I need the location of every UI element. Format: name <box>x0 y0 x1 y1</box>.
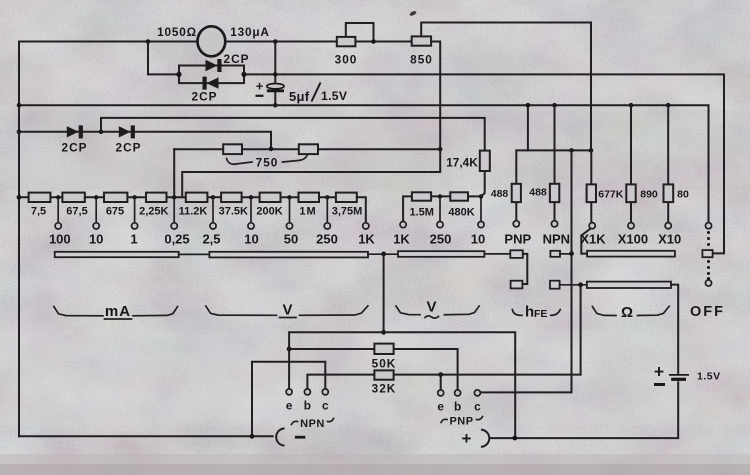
node: diode pair right <box>241 72 246 77</box>
node: rail y=105 capacitor junction <box>273 103 278 108</box>
bracket V ac <box>396 306 479 315</box>
svg-text:+: + <box>654 362 664 382</box>
svg-text:2CP: 2CP <box>62 141 88 155</box>
svg-text:7,5: 7,5 <box>31 206 46 218</box>
svg-text:FE: FE <box>534 308 547 320</box>
resistor 1M <box>299 193 320 202</box>
svg-text:V: V <box>426 299 436 316</box>
wire: V common drop x=383.6 <box>383 254 385 332</box>
resistor 1.5M <box>412 192 431 200</box>
squiggle right of 750 <box>283 155 308 163</box>
svg-text:677K: 677K <box>598 189 624 201</box>
contact pad NPN row1 <box>550 251 560 257</box>
node: 750-row right junction at x=440 <box>438 147 443 152</box>
node: junction between 2CP diodes <box>99 129 104 134</box>
OFF switch dotted link lower <box>707 260 710 263</box>
svg-text:2CP: 2CP <box>116 141 142 155</box>
node: chain junction 100 <box>56 195 60 199</box>
node: chain junction 10 <box>94 195 98 199</box>
wire: branch from 2CP junction up and right to 17.4K <box>101 118 485 151</box>
resistor 3.75M <box>336 193 357 202</box>
node: 750-row diode branch junction <box>269 147 274 152</box>
svg-text:b: b <box>454 400 461 414</box>
wire: diode pair loop frame <box>179 66 244 84</box>
wire: shunt drop x=148 <box>147 42 149 75</box>
resistor 67.5 <box>62 193 84 202</box>
wire: 32K line y=374.6 from NPN b across to ohm drop <box>307 375 580 389</box>
wire: bottom minus rail <box>19 435 273 437</box>
svg-text:1K: 1K <box>393 232 410 247</box>
node: chain junction 250 <box>325 195 329 199</box>
node: chain junction 2.5 <box>211 195 215 199</box>
svg-text:5μf: 5μf <box>289 89 310 104</box>
resistor 750-b <box>299 144 318 154</box>
node: hFE common junction at NPN pad <box>569 251 574 256</box>
OFF switch contact box <box>702 250 712 257</box>
terminal circle X1K <box>589 223 595 229</box>
label PNP with hooks <box>441 417 483 423</box>
selector bar ohm ranges X1K-X10 <box>587 251 675 257</box>
node: chain junction 50 <box>287 195 291 199</box>
wire: 677K lower lead <box>590 202 592 223</box>
svg-text:2,5: 2,5 <box>202 232 220 247</box>
bracket ohm <box>592 306 669 315</box>
wire: 80 riser x=668.2 <box>667 105 669 184</box>
svg-text:c: c <box>322 399 329 413</box>
contact pad NPN row2 <box>550 281 560 289</box>
diode 2CP lower of pair <box>203 77 219 90</box>
terminal circle 250 <box>324 223 330 229</box>
contact pad PNP row2 <box>511 281 523 289</box>
jack arc minus <box>276 429 283 446</box>
wire: rail y=105.2 full width, elbow down x=708.5 to OFF contact <box>19 105 709 222</box>
wire: 750-row y=149 from chain riser to 850 drop <box>174 148 440 150</box>
terminal circle OFF top <box>705 223 711 229</box>
terminal circle 10 <box>93 223 99 229</box>
node: segment junction x=591 <box>589 148 594 153</box>
node: rail tap x=631 <box>629 103 634 108</box>
tilde under V ac <box>425 316 439 318</box>
terminal circle NPN c <box>322 389 328 395</box>
node: V common tap on selector link <box>381 252 386 257</box>
resistor 50K <box>374 344 393 354</box>
wire: diode-pair left lead <box>148 73 179 75</box>
svg-text:890: 890 <box>640 189 658 201</box>
terminal circle X100 <box>628 223 634 229</box>
node: ohm bar left junction <box>578 282 583 287</box>
svg-text:1M: 1M <box>299 206 316 218</box>
node: chain1 left junction <box>17 195 22 200</box>
wire: 488-2 lower lead to NPN terminal <box>554 202 556 221</box>
terminal circle OFF bottom <box>705 280 711 286</box>
wire: 890 lower lead <box>630 202 632 223</box>
svg-text:10: 10 <box>471 232 485 247</box>
svg-text:+: + <box>462 429 472 448</box>
wire: hFE common vertical x=571.5 down to PNP c lead <box>480 150 571 392</box>
resistor 37.5K <box>221 193 242 202</box>
svg-text:1K: 1K <box>358 232 375 247</box>
svg-text:X100: X100 <box>618 232 648 247</box>
terminal circle 100 <box>55 223 61 229</box>
bracket hFE <box>512 310 560 316</box>
wire: 300 bypass loop <box>346 23 374 42</box>
svg-text:17,4K: 17,4K <box>446 156 478 170</box>
resistor 200K <box>260 193 281 202</box>
ink speck artifact <box>409 10 417 17</box>
terminal circles 1K 250 10 <box>400 222 406 228</box>
svg-text:b: b <box>304 399 311 413</box>
wire: tap to terminal 1 <box>134 197 136 223</box>
wire: left border vertical x=19 <box>18 42 20 437</box>
wire: tap to terminal 10 <box>95 197 97 223</box>
node: top rail capacitor tap <box>273 39 278 44</box>
resistor 850 <box>412 36 431 45</box>
resistor 480K <box>450 192 468 200</box>
meter M1 130uA <box>198 26 226 56</box>
svg-text:2CP: 2CP <box>192 90 218 104</box>
bracket mA <box>54 307 178 316</box>
wire: jog from x=440 junction down-left to chain junction <box>182 149 440 197</box>
resistor 7.5 <box>29 193 51 202</box>
wire: 488-1 lower lead to PNP terminal <box>515 202 517 221</box>
node: chain junction 10V <box>249 195 253 199</box>
contact pad PNP row1 <box>510 250 523 258</box>
node: junction on transistor top line <box>381 330 386 335</box>
node: rail y=131.7 left junction <box>17 129 22 134</box>
minus sign of left jack <box>295 436 305 439</box>
resistor 32K <box>374 370 393 379</box>
svg-text:NPN: NPN <box>300 418 325 430</box>
wire: chain2 1.5M/480K series <box>403 196 481 221</box>
diode 2CP D4 <box>119 125 135 138</box>
wire: capacitor lower lead to rail y=105 <box>274 90 276 105</box>
svg-text:V: V <box>282 302 292 319</box>
node: diode pair left <box>176 72 181 77</box>
svg-text:10: 10 <box>244 232 258 247</box>
resistor 675 <box>104 193 127 202</box>
node: PNP e junction on 32K line <box>438 372 443 377</box>
svg-text:1.5M: 1.5M <box>409 207 433 219</box>
svg-text:750: 750 <box>256 156 279 170</box>
node: NPN e junction on 50K line <box>287 347 292 352</box>
OFF switch dotted link upper <box>707 231 710 234</box>
wire: capacitor drop from top rail <box>274 42 276 86</box>
svg-text:mA: mA <box>105 303 131 320</box>
svg-text:11.2K: 11.2K <box>179 206 208 218</box>
svg-text:130μA: 130μA <box>230 25 269 39</box>
resistor 750-a <box>223 144 242 154</box>
label capacitor minus <box>256 95 264 97</box>
svg-text:50: 50 <box>284 232 298 247</box>
terminal circle NPN <box>551 221 557 227</box>
wire: ohm common bar to battery <box>671 285 678 373</box>
resistor 11.2K <box>186 193 208 202</box>
node: plus rail junction x=514.8 <box>512 436 517 441</box>
wire: diode rail y=131.7, elbow down at x=271 to 750-row <box>19 132 271 149</box>
resistor 17.4K vertical <box>480 151 490 171</box>
wire: tap to terminal 100 <box>57 197 59 223</box>
battery cell 1.5V plates <box>669 374 689 376</box>
wire: segment y=150.4 from 488 top to x=591 <box>516 150 591 183</box>
svg-text:675: 675 <box>106 206 124 218</box>
terminal circle PNP e <box>438 390 444 396</box>
wire: tap to terminal 10V <box>250 197 252 223</box>
svg-text:300: 300 <box>335 53 358 67</box>
svg-text:50K: 50K <box>372 357 397 371</box>
svg-text:250: 250 <box>430 232 452 247</box>
bracket V dc <box>206 306 368 316</box>
svg-text:32K: 32K <box>372 382 397 396</box>
svg-text:200K: 200K <box>256 206 282 218</box>
svg-text:c: c <box>474 400 481 414</box>
node: rail tap x=554.5 <box>552 103 557 108</box>
svg-text:100: 100 <box>49 232 71 247</box>
terminal circle 1K <box>363 223 369 229</box>
svg-text:3,75M: 3,75M <box>332 206 363 218</box>
wire: drop from ohm junction to 32K line <box>580 285 582 375</box>
terminal circle PNP <box>513 221 519 227</box>
jack arc plus <box>482 430 489 447</box>
diode 2CP D3 <box>67 125 83 138</box>
svg-text:0,25: 0,25 <box>164 232 189 247</box>
capacitor C1 5uF plates <box>267 84 284 89</box>
wire: 80 lower lead <box>667 202 669 223</box>
svg-text:850: 850 <box>410 53 433 67</box>
wire: PNP e drop <box>440 375 442 390</box>
selector bar ohm common <box>587 282 671 288</box>
svg-text:2CP: 2CP <box>224 52 250 66</box>
resistor 677K vertical <box>587 184 596 202</box>
svg-text:250: 250 <box>316 232 338 247</box>
resistor 300 <box>337 37 356 46</box>
wire: tap to terminal 2.5 <box>212 197 214 223</box>
svg-text:67,5: 67,5 <box>66 206 87 218</box>
svg-text:2,25K: 2,25K <box>139 206 168 218</box>
svg-text:488: 488 <box>491 188 509 200</box>
underline mA <box>105 318 132 320</box>
wire: bar3 to PNP contact pad <box>484 253 510 255</box>
selector bar mA (100-0.25) <box>55 252 179 257</box>
terminal circle PNP c <box>474 390 480 396</box>
wire: drop from rail y=105 at x=527.9 <box>527 105 529 150</box>
svg-text:NPN: NPN <box>543 232 570 247</box>
wire: rail y=74.4 from diode pair to far right elbow down x=724 <box>244 74 724 253</box>
svg-text:1.5V: 1.5V <box>697 371 721 383</box>
underline V <box>280 317 297 319</box>
wire: bar2-bar3 link with tap <box>368 253 398 255</box>
terminal circle 50 <box>286 223 292 229</box>
terminal circle 1 <box>132 223 138 229</box>
wire: 890 riser x=631 <box>630 105 632 184</box>
wire: tap to terminal 0.25 <box>173 197 175 223</box>
resistor 890 vertical <box>626 184 635 202</box>
svg-text:Ω: Ω <box>621 304 633 321</box>
svg-text:PNP: PNP <box>449 416 473 428</box>
selector bar V ac (1K-10) <box>398 251 484 257</box>
svg-text:e: e <box>437 400 444 414</box>
node: segment junction x=571.5 <box>569 148 574 153</box>
node: chain2 junction <box>438 194 442 198</box>
wire: X1K terminal link down to ohm range bar <box>581 229 590 254</box>
svg-text:h: h <box>525 304 534 321</box>
node: 17.4K bottom junction <box>479 194 483 198</box>
svg-text:OFF: OFF <box>690 304 725 320</box>
svg-text:X1K: X1K <box>580 232 606 247</box>
resistor 488 second vertical <box>550 184 559 202</box>
node: rail tap x=527.9 <box>526 103 531 108</box>
terminal circle 2.5 <box>210 223 216 229</box>
wire: NPN c branch from minus rail <box>252 362 325 437</box>
wire: riser from chain junction up to 750-row <box>173 149 175 197</box>
wire: top rail y=41.5 from left corner to meter <box>19 41 198 43</box>
terminal circle NPN b <box>304 389 310 395</box>
node: rail tap x=668.2 <box>666 103 671 108</box>
node: chain junction 1 <box>132 195 136 199</box>
squiggle left of 750 <box>227 159 253 165</box>
wire: top rail meter to elbow x=440 down to 750-row <box>226 42 441 150</box>
node: chain junction 0.25 <box>172 195 176 199</box>
wire: bottom plus rail to battery <box>491 382 679 438</box>
diode 2CP upper of pair <box>206 59 222 72</box>
wire: transistor top line y=332.3 with corners down <box>289 332 515 437</box>
label NPN with hooks <box>292 419 334 425</box>
light smudge artifact <box>481 350 507 358</box>
svg-text:80: 80 <box>677 189 689 201</box>
wire: 17.4K lower lead <box>481 171 485 196</box>
svg-text:PNP: PNP <box>504 232 531 247</box>
node: rail y=105 left junction <box>17 103 22 108</box>
svg-text:1.5V: 1.5V <box>321 89 348 103</box>
terminal circle X10 <box>665 223 671 229</box>
resistor 80 vertical <box>664 184 674 202</box>
selector bar V dc (2.5-1K) <box>209 252 368 258</box>
wire: 488-2 riser x=554.5 <box>554 105 556 184</box>
wire: chain2 taps <box>440 196 481 221</box>
svg-text:e: e <box>286 399 293 413</box>
svg-text:+: + <box>256 79 264 94</box>
node: y=74.4 rail capacitor junction <box>273 72 278 77</box>
resistor 2.25K <box>146 193 167 202</box>
wire: bar1-bar2 link <box>179 253 210 255</box>
svg-text:488: 488 <box>529 187 547 199</box>
label battery minus <box>654 383 665 386</box>
wire: 677K riser x=591.5 <box>590 150 592 184</box>
svg-text:480K: 480K <box>448 207 474 219</box>
wire: NPN e drop <box>288 349 290 389</box>
node: minus rail NPN c tap <box>250 434 255 439</box>
wire: 50K line y=349 to PNP b <box>289 349 458 390</box>
node: bypass junction right of 300 <box>371 39 376 44</box>
node: junction top rail / meter shunt <box>146 39 151 44</box>
resistor 488 first vertical <box>512 184 521 202</box>
svg-text:10: 10 <box>89 232 103 247</box>
terminal circle 10V <box>248 223 254 229</box>
wire: NPN row2 pad to ohm bar <box>560 284 587 286</box>
svg-text:X10: X10 <box>658 232 681 247</box>
terminal circle 0.25 <box>171 223 177 229</box>
wire: 850 bypass loop tall, down to x=591 <box>421 23 591 151</box>
svg-text:1: 1 <box>130 232 137 247</box>
wire: PNP pad row1 down to row2 <box>522 254 527 284</box>
wire: tap to terminal 250 <box>326 197 328 223</box>
svg-text:1050Ω: 1050Ω <box>157 25 197 39</box>
terminal circle NPN e <box>286 389 292 395</box>
wire: chain1 series line y=197.3 <box>19 197 366 223</box>
wire: NPN pad row1 to hFE common <box>560 253 572 255</box>
wire: tap to terminal 50 <box>289 197 291 223</box>
terminal circle PNP b <box>455 390 461 396</box>
svg-text:37.5K: 37.5K <box>219 206 248 218</box>
